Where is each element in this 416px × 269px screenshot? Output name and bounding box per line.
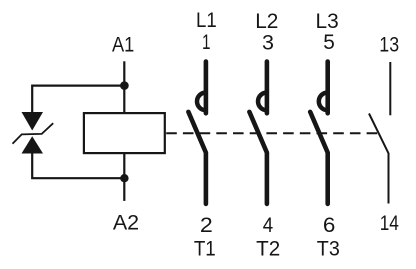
svg-text:13: 13 — [379, 33, 399, 57]
aux contact fixed side — [389, 62, 391, 115]
svg-text:4: 4 — [263, 213, 273, 237]
svg-text:L1: L1 — [196, 8, 217, 32]
svg-text:6: 6 — [323, 213, 336, 237]
svg-text:T3: T3 — [317, 237, 340, 261]
svg-text:A1: A1 — [112, 32, 134, 56]
wire top branch to suppressor — [32, 86, 124, 113]
svg-text:T1: T1 — [194, 236, 216, 260]
suppressor D1 (bidirectional transil) top diode — [22, 112, 44, 131]
coil K1 — [84, 113, 165, 153]
pole 3 fixed contact — [319, 62, 328, 114]
wire A2 lead — [123, 153, 125, 201]
aux contact moving side — [369, 114, 389, 204]
suppressor D1 bottom diode — [22, 136, 44, 153]
svg-text:T2: T2 — [256, 237, 280, 261]
wire A1 lead — [123, 61, 125, 113]
wire suppressor to bottom branch — [32, 153, 124, 178]
suppressor D1 cathode Z-bar — [13, 123, 54, 144]
pole 3 moving contact — [310, 112, 328, 204]
pole 1 fixed contact — [197, 62, 206, 114]
svg-text:1: 1 — [202, 30, 211, 54]
svg-text:14: 14 — [380, 211, 399, 235]
svg-text:2: 2 — [200, 213, 213, 237]
node A1 junction — [120, 81, 129, 90]
svg-text:L2: L2 — [255, 9, 278, 33]
svg-text:3: 3 — [262, 30, 274, 54]
node A2 junction — [120, 174, 128, 182]
pole 1 moving contact — [188, 112, 206, 204]
pole 2 moving contact — [249, 112, 267, 204]
mechanical linkage (dashed) — [166, 132, 378, 134]
svg-text:A2: A2 — [113, 210, 139, 234]
pole 2 fixed contact — [258, 62, 267, 114]
svg-text:5: 5 — [323, 30, 335, 54]
